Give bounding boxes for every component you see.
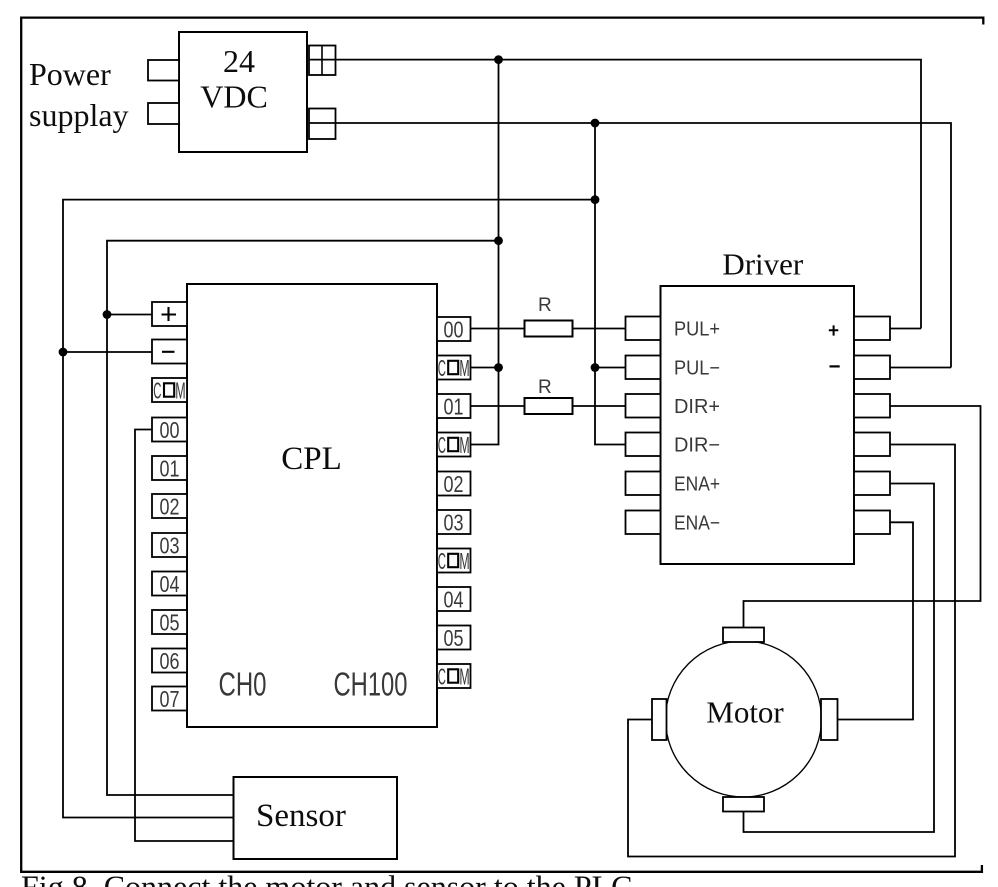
- svg-text:02: 02: [160, 494, 180, 520]
- Driver right pin A+: [854, 394, 890, 418]
- power supply left pin L1: [148, 60, 179, 81]
- node junction dot minus branch: [59, 348, 68, 357]
- Driver left pin ENA-: [626, 511, 661, 535]
- svg-text:Fig.8. Connect the motor and s: Fig.8. Connect the motor and sensor to t…: [21, 869, 633, 887]
- svg-text:CH100: CH100: [334, 666, 408, 703]
- svg-text:M: M: [459, 355, 469, 381]
- CPL left pin 00: [152, 417, 187, 443]
- svg-text:R: R: [538, 295, 552, 316]
- wire V+ stub: [890, 328, 921, 330]
- svg-text:M: M: [459, 663, 469, 689]
- svg-text:R: R: [538, 377, 552, 398]
- svg-text:PUL−: PUL−: [674, 358, 720, 380]
- CPL right pin 02: [437, 471, 471, 497]
- Driver left pin DIR+: [626, 394, 661, 418]
- svg-text:Driver: Driver: [722, 247, 804, 282]
- Driver right pin V-: [854, 356, 890, 380]
- svg-text:Power: Power: [29, 56, 111, 92]
- svg-text:C: C: [438, 548, 446, 574]
- CPL right pin 05: [437, 625, 471, 651]
- svg-text:00: 00: [444, 317, 464, 343]
- motor terminal left: [652, 699, 667, 740]
- CPL left pin +: [152, 302, 187, 326]
- Driver right pin V+: [854, 317, 890, 341]
- Driver label -: [830, 365, 840, 367]
- svg-text:ENA−: ENA−: [674, 513, 720, 535]
- wire vertical A +24 to COM pins: [471, 60, 499, 445]
- Driver U2 box: [661, 286, 855, 564]
- wire +24V rail: [309, 60, 921, 329]
- svg-text:C: C: [438, 432, 446, 458]
- power supply left pin L2: [148, 103, 179, 124]
- svg-text:Sensor: Sensor: [256, 798, 346, 834]
- CPL right pin 04: [437, 587, 471, 613]
- svg-text:C: C: [438, 663, 446, 689]
- svg-text:VDC: VDC: [200, 79, 268, 115]
- CPL left pin 01: [152, 456, 187, 482]
- CPL left pin 02: [152, 494, 187, 520]
- wire CPL 01 to resistor R2: [471, 405, 525, 407]
- CPL left pin 05: [152, 610, 187, 636]
- CPL left pin -: [152, 340, 187, 364]
- power supply PS1 label: [29, 56, 129, 133]
- node junction dot B top: [591, 119, 600, 128]
- Driver left pin PUL+: [626, 317, 661, 341]
- Driver right pin B+: [854, 472, 890, 496]
- Driver label +: [829, 325, 839, 335]
- CPL U1 box: [187, 284, 437, 727]
- svg-text:M: M: [175, 377, 185, 403]
- motor terminal right: [821, 699, 838, 740]
- svg-text:04: 04: [160, 571, 180, 597]
- power supply PS1 value label 24 VDC: [200, 43, 268, 115]
- wire B- to motor right: [838, 522, 914, 719]
- wire PUL- tap: [595, 367, 626, 369]
- node junction dot A top: [494, 55, 503, 64]
- power supply right pin -V: [309, 109, 336, 140]
- svg-text:05: 05: [160, 610, 180, 636]
- svg-text:03: 03: [444, 510, 464, 536]
- CPL right pin 01: [437, 394, 471, 420]
- svg-text:PUL+: PUL+: [674, 319, 720, 341]
- svg-text:05: 05: [444, 625, 464, 651]
- motor terminal bottom: [723, 797, 764, 812]
- Driver left pin DIR-: [626, 433, 661, 457]
- CPL left pin 07: [152, 686, 187, 712]
- wire sensor blue to +rail: [107, 241, 499, 795]
- wire 0V rail: [309, 123, 951, 368]
- wire R2 to DIR+: [573, 405, 627, 407]
- wire sensor black to CPL input 00: [135, 430, 234, 842]
- svg-text:00: 00: [160, 417, 180, 443]
- resistor R1: [525, 321, 573, 337]
- wire B+ to motor bottom: [744, 484, 935, 833]
- node junction dot B sensor: [591, 195, 600, 204]
- CPL right pin COM3: [437, 548, 471, 574]
- power supply + pin tick: [321, 46, 323, 76]
- node junction dot A sensor: [494, 236, 503, 245]
- Driver right pin B-: [854, 511, 890, 535]
- CPL right pin COM4: [437, 663, 471, 689]
- svg-text:CPL: CPL: [281, 441, 342, 477]
- svg-text:01: 01: [160, 456, 180, 482]
- wire R1 to PUL+: [573, 328, 627, 330]
- CPL left pin 06: [152, 648, 187, 674]
- svg-text:CH0: CH0: [219, 666, 267, 703]
- svg-text:ENA+: ENA+: [674, 474, 720, 496]
- svg-text:DIR−: DIR−: [674, 435, 720, 457]
- svg-text:Motor: Motor: [706, 695, 784, 730]
- node junction dot plus branch: [103, 310, 112, 319]
- CPL right pin COM1: [437, 355, 471, 381]
- power supply PS1 box: [179, 32, 307, 152]
- Driver left pin PUL-: [626, 356, 661, 380]
- wire sensor brown to -rail: [63, 200, 595, 818]
- wire CPL 00 to resistor R1: [471, 328, 525, 330]
- svg-text:24: 24: [223, 43, 255, 79]
- svg-text:02: 02: [444, 471, 464, 497]
- svg-text:M: M: [459, 432, 469, 458]
- svg-text:01: 01: [444, 394, 464, 420]
- wire branch to CPL plus pin: [107, 314, 152, 316]
- CPL right pin 00: [437, 317, 471, 343]
- svg-text:06: 06: [160, 648, 180, 674]
- svg-text:07: 07: [160, 686, 180, 712]
- Driver right pin A-: [854, 433, 890, 457]
- Driver left pin ENA+: [626, 472, 661, 496]
- wire vertical B 0V to DIR-: [595, 123, 626, 445]
- resistor R2: [525, 398, 573, 414]
- wire A- to motor left: [628, 445, 955, 857]
- svg-text:C: C: [438, 355, 446, 381]
- wire A+ to motor top: [744, 406, 981, 628]
- CPL left pin 04: [152, 571, 187, 597]
- node junction dot COM tap: [494, 363, 503, 372]
- svg-text:DIR+: DIR+: [674, 396, 720, 418]
- motor terminal top: [723, 628, 764, 643]
- power supply right pin +V: [309, 46, 336, 76]
- sensor S1 box: [234, 777, 398, 859]
- wire COM tap: [471, 367, 499, 369]
- CPL right pin 03: [437, 510, 471, 536]
- svg-text:C: C: [153, 377, 161, 403]
- CPL left pin COM: [152, 377, 187, 403]
- svg-text:M: M: [459, 548, 469, 574]
- svg-text:supplay: supplay: [29, 97, 129, 133]
- node junction dot PUL- tap: [591, 363, 600, 372]
- svg-text:04: 04: [444, 587, 464, 613]
- wire V- stub: [890, 367, 951, 369]
- CPL left pin 03: [152, 533, 187, 559]
- wire branch to CPL minus pin: [63, 351, 152, 353]
- motor M1 body: [666, 641, 822, 797]
- CPL right pin COM2: [437, 432, 471, 458]
- svg-text:03: 03: [160, 533, 180, 559]
